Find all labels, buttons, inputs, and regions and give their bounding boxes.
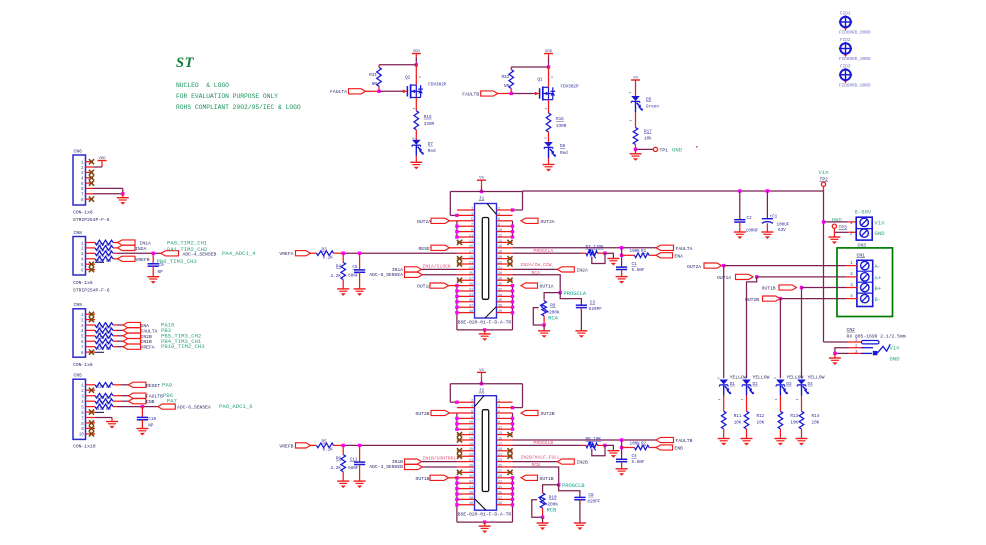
net name GND (CN2)	[890, 356, 901, 363]
svg-text:C3: C3	[590, 301, 596, 306]
no-connect CN9 pin8	[89, 350, 94, 355]
svg-text:ADC-6_SENSEA: ADC-6_SENSEA	[369, 272, 403, 278]
transistor Q2 FDV302P	[402, 65, 446, 111]
green box (CN1)	[837, 248, 893, 317]
junction pot (PROGCLB)	[603, 444, 606, 447]
no-connect CN5 pin2	[89, 388, 94, 393]
resistor 100K R2 100K	[622, 441, 656, 449]
potentiometer R10 200K	[538, 492, 559, 518]
wire OUT1B to D4	[801, 288, 803, 379]
svg-text:820PF: 820PF	[587, 499, 600, 504]
net label IN2A/CW_CCW	[521, 262, 552, 268]
svg-text:38: 38	[469, 497, 473, 501]
net name PB0_TIM3_CH3	[157, 258, 197, 265]
connector CN2 barrel jack	[847, 327, 906, 356]
connector J2 body	[475, 396, 497, 511]
svg-text:ST: ST	[176, 55, 195, 71]
label STRIP254P-F-6	[73, 287, 110, 293]
no-connect pin	[457, 261, 462, 266]
svg-text:ENB: ENB	[146, 399, 155, 405]
svg-text:330R: 330R	[556, 124, 567, 129]
wire pot to ground (PROGCLA)	[605, 253, 614, 258]
wire VREFB to J	[343, 444, 457, 446]
junction OUT2B	[779, 297, 782, 300]
svg-text:C4: C4	[632, 454, 638, 459]
no-connect CN8 pin6	[89, 267, 94, 272]
svg-text:6: 6	[471, 410, 473, 414]
net name RCA (pot)	[548, 316, 558, 322]
svg-text:25: 25	[469, 272, 473, 276]
net label RCB	[532, 462, 541, 468]
junction PROGCLA	[559, 291, 562, 294]
no-connect CN6 pin 1	[89, 159, 94, 164]
svg-text:PA1_TIM2_CH2: PA1_TIM2_CH2	[167, 246, 207, 253]
no-connect CN5 pin9	[89, 426, 94, 431]
svg-text:FAULTB: FAULTB	[146, 394, 163, 400]
svg-text:22: 22	[498, 261, 502, 265]
ground (D2)	[741, 439, 753, 446]
wire CN9 pin5	[113, 335, 123, 337]
svg-text:25: 25	[498, 464, 502, 468]
ground (J1)	[479, 330, 491, 341]
port OUT2A (J1 left)	[417, 218, 457, 225]
net name PA4_ADC1_4	[222, 250, 256, 257]
port ENB	[656, 445, 683, 452]
text FOR EVALUATION PURPOSE ONLY	[176, 93, 278, 100]
junction OUT2A	[722, 264, 725, 267]
svg-text:10: 10	[79, 434, 85, 438]
svg-text:R29: R29	[97, 385, 105, 390]
resistor R32b 0R (CN5 pin5)	[95, 404, 113, 412]
wire OUT1B to CN1	[802, 287, 847, 289]
svg-text:NP: NP	[372, 82, 378, 87]
svg-text:OUT1A: OUT1A	[540, 284, 554, 290]
svg-text:35: 35	[469, 299, 473, 303]
junction pot bottom (R10)	[541, 516, 544, 519]
ground (R9)	[538, 325, 550, 338]
svg-text:OUT1B: OUT1B	[762, 286, 776, 292]
ground (pot PROGCLB)	[607, 451, 619, 458]
svg-text:5.6NF: 5.6NF	[632, 460, 645, 465]
svg-text:20: 20	[469, 448, 473, 452]
ground (R4)	[337, 289, 349, 296]
transistor Q1 FDV302P	[535, 67, 579, 113]
svg-text:OUT1A: OUT1A	[417, 284, 431, 290]
svg-text:R16: R16	[556, 117, 564, 122]
svg-text:19: 19	[469, 256, 473, 260]
wire FAULTA net	[513, 247, 657, 249]
connector CN5	[73, 373, 95, 440]
potentiometer R9 200K	[539, 299, 560, 325]
net label PROGCLB	[534, 440, 554, 446]
svg-text:FAULTA: FAULTA	[141, 328, 158, 334]
resistor R111 0R (CN8 pin3)	[95, 251, 113, 259]
ground (C3)	[575, 331, 587, 338]
wire gate Q1	[511, 93, 535, 95]
no-connect CN5 pin6	[89, 409, 94, 414]
port ENB (CN5)	[128, 399, 154, 406]
resistor R16 330R	[546, 113, 567, 142]
svg-text:31: 31	[498, 481, 502, 485]
junction OUT1B	[800, 286, 803, 289]
wire OUT2A to D1	[723, 266, 725, 379]
resistor R26 0R (CN9 pin5)	[95, 334, 113, 342]
wire FAULTB net	[513, 439, 657, 441]
wire CN6 pin7	[93, 193, 123, 195]
resistor R25 0R (CN9 pin4)	[95, 328, 113, 336]
net name PB4_TIM3_CH1	[161, 338, 202, 345]
port ADC-6_SENSEA (CN5)	[158, 404, 211, 411]
svg-text:R13: R13	[790, 414, 798, 419]
svg-text:10K: 10K	[790, 421, 798, 426]
wire J1 lower pin bus	[455, 284, 514, 332]
junction PROGCLB	[557, 483, 560, 486]
svg-text:YELLOW: YELLOW	[753, 375, 770, 381]
net name PA0_TIM2_CH1	[167, 240, 208, 247]
wire PROGCLB to cap	[559, 485, 580, 497]
wire VDD to R31	[379, 64, 416, 66]
port IN2B (CN9)	[123, 333, 152, 340]
svg-text:R12: R12	[757, 414, 765, 419]
port OUT1B (CN1)	[762, 285, 797, 292]
junction FAULTA	[620, 246, 623, 249]
junction CN5 pin5	[141, 405, 144, 408]
port IN1A (CN8)	[118, 240, 151, 247]
resistor R31 0R (CN5 pin4)	[95, 399, 113, 407]
svg-text:CN9: CN9	[74, 302, 83, 308]
svg-text:J1: J1	[479, 196, 485, 202]
resistor R19 0R (CN8 pin1)	[95, 240, 113, 248]
svg-text:OUT2B: OUT2B	[745, 297, 759, 303]
svg-text:ADC-6_SENSEA: ADC-6_SENSEA	[177, 405, 211, 411]
ground (D3)	[774, 439, 786, 446]
port RESET (CN5)	[128, 382, 160, 389]
svg-text:R3: R3	[322, 247, 328, 252]
svg-text:R10: R10	[549, 496, 557, 501]
svg-text:ENA: ENA	[675, 253, 684, 259]
resistor R11 10K	[721, 411, 741, 438]
wire ADC-4_SENSEB to J	[423, 466, 457, 468]
svg-text:28: 28	[498, 278, 502, 282]
svg-text:39: 39	[498, 502, 502, 506]
svg-text:R1: R1	[641, 249, 647, 254]
capacitor C10 NP	[137, 407, 157, 429]
wire FAULTA branch	[621, 248, 623, 267]
ground (C2)	[734, 232, 746, 239]
svg-text:D5: D5	[646, 98, 652, 103]
svg-text:31: 31	[469, 288, 473, 292]
label STRIP254P-F-8	[73, 217, 110, 223]
svg-text:28: 28	[469, 470, 473, 474]
svg-text:R2: R2	[641, 441, 647, 446]
label BSE-020-01-F-D-A-TR (J2)	[458, 512, 512, 518]
ground (FAULTB driver)	[543, 165, 555, 172]
svg-text:IN1B/CONTROL: IN1B/CONTROL	[423, 456, 457, 462]
wire CN8 pin4 to VREFB	[113, 258, 118, 260]
net name PB3	[161, 327, 171, 334]
net name PA10	[161, 322, 175, 329]
junction C2	[738, 189, 741, 192]
junction FAULTB/gate	[510, 92, 513, 95]
port VREFA (CN9)	[123, 344, 155, 351]
no-connect CN5 pin8	[89, 420, 94, 425]
power VDD (FAULTB driver)	[544, 50, 553, 67]
net label RCA	[532, 270, 541, 276]
potentiometer R7 110K	[586, 245, 605, 258]
wire CN5 pin5 net	[113, 406, 158, 408]
net name Vin (CN2)	[890, 345, 900, 352]
port OUT2B (J2 left)	[416, 410, 457, 417]
svg-text:14: 14	[498, 240, 502, 244]
port FAULTA	[330, 89, 379, 95]
svg-text:6: 6	[498, 218, 500, 222]
wire to TP1	[636, 148, 654, 150]
no-connect pin	[507, 256, 512, 261]
svg-text:100K: 100K	[630, 441, 641, 446]
svg-text:37: 37	[498, 497, 502, 501]
svg-text:10K: 10K	[812, 421, 820, 426]
no-connect pin	[457, 437, 462, 442]
connector CN3	[850, 209, 885, 249]
ST logo	[176, 55, 195, 71]
wire PROGCLA net	[513, 252, 587, 254]
svg-text:18: 18	[469, 443, 473, 447]
svg-text:17: 17	[498, 443, 502, 447]
wire J2 lower pin bus	[455, 476, 514, 524]
svg-text:PA9: PA9	[162, 381, 172, 388]
svg-text:68NF: 68NF	[348, 274, 359, 279]
wire CN5 pin1	[113, 384, 128, 386]
no-connect pin	[507, 470, 512, 475]
svg-text:R4: R4	[336, 265, 342, 270]
no-connect pin	[507, 278, 512, 283]
svg-text:10K: 10K	[734, 421, 742, 426]
svg-text:FOR EVALUATION PURPOSE ONLY: FOR EVALUATION PURPOSE ONLY	[176, 93, 278, 100]
LED D1 YELLOW	[719, 375, 746, 412]
svg-text:IN1A/CLOCK: IN1A/CLOCK	[423, 264, 451, 270]
wire pot wiper loop (R10)	[532, 500, 543, 517]
label BSE-020-01-F-D-A-TR (J1)	[458, 320, 512, 326]
power VS (J1)	[477, 177, 486, 192]
svg-text:Red: Red	[428, 149, 436, 154]
svg-text:PROGCLA: PROGCLA	[564, 291, 587, 297]
svg-text:R8 10K: R8 10K	[586, 437, 602, 442]
junction VS (J1)	[480, 190, 483, 193]
svg-text:30: 30	[469, 475, 473, 479]
wire CN5 pin4	[113, 400, 128, 402]
svg-text:15: 15	[498, 437, 502, 441]
net name PA9	[162, 381, 172, 388]
resistor R4 2.2K	[331, 253, 346, 288]
svg-text:IN2A/CW_CCW: IN2A/CW_CCW	[521, 262, 552, 268]
wire J1 upper pin bus	[455, 221, 514, 239]
no-connect pin	[457, 470, 462, 475]
svg-text:R28: R28	[97, 347, 105, 352]
resistor 100K R1 100K	[622, 249, 656, 257]
connector CN8	[73, 230, 95, 275]
svg-text:IN1B: IN1B	[141, 339, 152, 345]
test point TP1 GND	[653, 147, 682, 154]
port FAULTB	[462, 91, 511, 97]
fiducial FID2	[839, 38, 871, 62]
svg-text:GND: GND	[832, 216, 843, 223]
svg-text:D3: D3	[786, 382, 792, 387]
resistor R30 0R (CN5 pin3)	[95, 393, 113, 401]
no-connect pin	[457, 454, 462, 459]
svg-text:5.6NF: 5.6NF	[632, 268, 645, 273]
svg-text:34: 34	[469, 486, 473, 490]
connector J1 pins	[457, 207, 513, 314]
wire CN6 pin6	[93, 188, 123, 193]
svg-text:CN2: CN2	[847, 327, 856, 333]
svg-text:10: 10	[498, 229, 502, 233]
wire CN9 pin3	[113, 324, 123, 326]
wire IN1A to J	[422, 268, 457, 270]
svg-text:18: 18	[498, 251, 502, 255]
port OUT2 right (B)	[521, 410, 555, 417]
port VREFA	[279, 251, 316, 258]
net name PA1_TIM2_CH2	[167, 246, 207, 253]
ground (C4)	[616, 469, 628, 476]
net name PA6_ADC1_6	[219, 403, 253, 410]
wire CN8 pin3 net	[113, 252, 161, 254]
svg-text:D2: D2	[753, 382, 759, 387]
svg-text:ENB: ENB	[675, 446, 684, 452]
wire CN8 pin1 to IN1A	[113, 242, 118, 244]
connector J2 pins	[457, 400, 513, 507]
resistor R5 9.1K	[317, 440, 344, 453]
svg-text:40: 40	[498, 310, 502, 314]
resistor R3 9.1K	[317, 247, 344, 260]
no-connect pin	[507, 240, 512, 245]
wire PROGCLA to pot	[544, 293, 560, 300]
svg-text:39: 39	[469, 310, 473, 314]
power VDD (CN6)	[98, 157, 107, 167]
svg-text:35: 35	[498, 491, 502, 495]
text ROHS COMPLIANT	[176, 104, 301, 111]
svg-text:8-50V: 8-50V	[855, 209, 872, 216]
junction R (ENB)	[620, 446, 623, 449]
wire ADC-6_SENSEA to J	[423, 274, 457, 276]
net name PROGCLB	[562, 483, 585, 489]
port IN2A (CN8)	[118, 245, 147, 252]
resistor R12 10K	[744, 411, 764, 438]
net name PA7	[167, 398, 177, 405]
svg-text:VREFA: VREFA	[279, 251, 293, 257]
wire J2 upper pin bus	[455, 413, 514, 431]
wire VREFA to J	[343, 252, 457, 254]
svg-text:33: 33	[498, 486, 502, 490]
wire PROGCLA to cap	[560, 293, 581, 305]
potentiometer R8 10K	[586, 437, 605, 450]
wire pot wiper loop (R9)	[533, 308, 544, 325]
connector CN1	[846, 252, 882, 306]
resistor R28 0R (CN9 pin7)	[95, 344, 113, 352]
wire CN6 pin2 to VDD	[93, 166, 102, 168]
port FAULTB (CN5)	[128, 393, 163, 400]
svg-text:7: 7	[471, 224, 473, 228]
wire OUT2B to CN1	[780, 298, 846, 300]
svg-text:NP: NP	[504, 84, 510, 89]
label CON-1x8 (CN9)	[73, 362, 93, 368]
svg-text:17: 17	[469, 251, 473, 255]
svg-text:13: 13	[498, 432, 502, 436]
net label IN2B/HALF_FULL	[521, 454, 561, 460]
capacitor C3 820PF	[576, 301, 602, 331]
ground (C1)	[616, 277, 628, 284]
port ADC-4_SENSEB (CN8)	[161, 251, 216, 258]
junction VDD	[415, 63, 418, 66]
svg-text:STRIP254P-F-6: STRIP254P-F-6	[73, 287, 110, 293]
junction FAULTB	[620, 438, 623, 441]
ground (pot PROGCLA)	[607, 259, 619, 266]
svg-text:C2: C2	[747, 216, 753, 221]
svg-text:34: 34	[498, 294, 502, 298]
no-connect CN6 pin 4	[89, 175, 94, 180]
resistor R31 NP	[369, 65, 381, 92]
port IN1B	[392, 459, 422, 465]
svg-text:2.2K: 2.2K	[331, 274, 342, 279]
no-connect CN8 pin5	[89, 262, 94, 267]
svg-text:1: 1	[471, 207, 473, 211]
no-connect CN9 pin1	[89, 312, 94, 317]
wire VS box (J1)	[450, 192, 522, 218]
junction CN6 gnd	[121, 192, 124, 195]
LED D3 YELLOW	[776, 375, 803, 412]
ground (C11)	[354, 481, 366, 488]
svg-text:24: 24	[469, 459, 473, 463]
LED D2 YELLOW	[742, 375, 769, 412]
junction C11	[358, 444, 361, 447]
svg-text:36: 36	[498, 299, 502, 303]
svg-text:FID60RD_80RD: FID60RD_80RD	[839, 57, 871, 62]
svg-text:33: 33	[469, 294, 473, 298]
svg-text:16: 16	[498, 245, 502, 249]
svg-text:FAULTB: FAULTB	[676, 438, 693, 444]
wire RCB net	[513, 467, 559, 485]
junction VS (J2)	[480, 382, 483, 385]
svg-text:C10: C10	[148, 417, 156, 422]
svg-text:10K: 10K	[757, 421, 765, 426]
svg-text:D1: D1	[730, 382, 736, 387]
svg-text:40: 40	[469, 502, 473, 506]
wire FAULTB branch	[621, 440, 623, 459]
LED D5 Green	[631, 96, 659, 128]
svg-text:BSE-020-01-F-D-A-TR: BSE-020-01-F-D-A-TR	[458, 512, 512, 518]
svg-text:OUT1A: OUT1A	[717, 275, 731, 281]
svg-text:38: 38	[498, 305, 502, 309]
svg-text:IN2B: IN2B	[141, 334, 152, 340]
ground (R6)	[337, 481, 349, 488]
svg-text:VREFB: VREFB	[136, 257, 150, 263]
net name RCB (pot)	[547, 508, 557, 514]
wire CN5 pin3	[113, 395, 128, 397]
svg-text:R6: R6	[336, 457, 342, 462]
capacitor C1 5.6NF	[616, 262, 645, 276]
wire PROGCLB net	[513, 444, 587, 446]
svg-text:29: 29	[469, 283, 473, 287]
svg-text:NP: NP	[158, 270, 164, 275]
net name PB6	[163, 392, 173, 399]
resistor R112 0R (CN8 pin4)	[95, 257, 113, 265]
svg-text:2: 2	[471, 400, 473, 404]
ground (J2)	[479, 522, 491, 533]
svg-text:R22: R22	[97, 259, 105, 264]
svg-text:Q1: Q1	[537, 78, 543, 83]
wire VDD to R32	[511, 66, 548, 68]
port OUT2B (CN1)	[745, 296, 780, 303]
wire RCA net	[513, 275, 561, 293]
